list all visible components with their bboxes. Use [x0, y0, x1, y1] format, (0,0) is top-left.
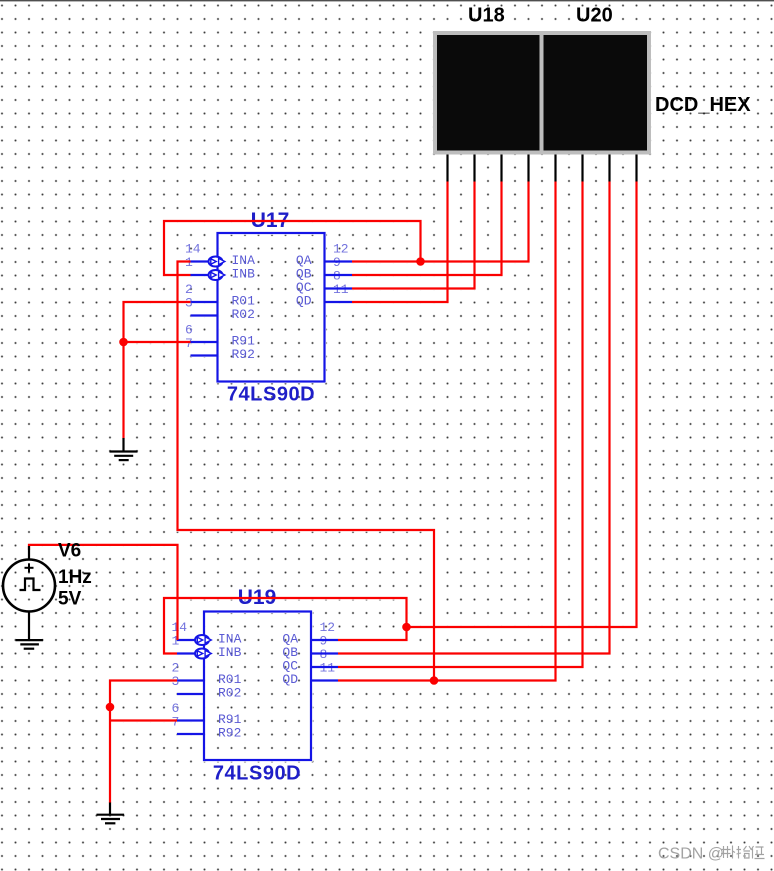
U19 pin number 12 — [320, 620, 336, 635]
V6 pulse waveform glyph — [20, 579, 41, 591]
U17 pin 1 INB stub — [191, 270, 225, 280]
U19 pin name R91 — [218, 712, 242, 727]
U17 pin 3 R02 stub — [191, 314, 218, 316]
wire U17 QA to U18 pin4 — [352, 182, 529, 262]
svg-text:7: 7 — [185, 336, 193, 351]
U19 pin name R01 — [218, 672, 242, 687]
U19 pin name QB — [282, 645, 298, 660]
svg-text:R02: R02 — [218, 686, 241, 701]
svg-text:CSDN @: CSDN @ — [658, 846, 724, 863]
U19 pin 9 QB stub — [311, 652, 338, 654]
U19 reference label — [238, 586, 277, 609]
U19 pin name R92 — [218, 726, 241, 741]
svg-text:QD: QD — [296, 294, 312, 309]
U19 pin number 8 — [320, 647, 328, 662]
U19 pin number 2 — [172, 661, 180, 676]
svg-text:7: 7 — [172, 715, 180, 730]
U19 pin name INA — [218, 632, 242, 647]
svg-text:74LS90D: 74LS90D — [213, 763, 301, 785]
U17 pin 11 QD stub — [325, 301, 353, 303]
V6 top lead — [28, 546, 30, 560]
U19 pin name QA — [282, 632, 298, 647]
svg-text:U20: U20 — [576, 5, 613, 27]
U19 pin name QD — [282, 672, 298, 687]
source V6 circle — [3, 560, 55, 612]
svg-text:R92: R92 — [232, 347, 255, 362]
U17 pin number 12 — [333, 242, 349, 257]
wire U19 QD to U17 INA — [178, 262, 435, 681]
svg-text:INB: INB — [218, 645, 242, 660]
U17 pin number 3 — [185, 296, 193, 311]
U17 pin number 1 — [185, 255, 193, 270]
display U18 pin 4 stub — [527, 155, 529, 182]
svg-text:QD: QD — [282, 672, 298, 687]
wire U17 QD to U18 pin1 — [352, 182, 448, 303]
U19 pin number 11 — [320, 661, 336, 676]
display U20 pin 2 stub — [581, 155, 583, 182]
junction node U19 QD cascade — [430, 676, 439, 685]
U17 pin name INB — [232, 267, 256, 282]
U19 pin 1 INB stub — [177, 649, 211, 659]
display U20 body — [544, 35, 648, 151]
V6 reference label — [58, 541, 81, 562]
U19 pin number 6 — [172, 701, 180, 716]
wire U17 R01 to ground net — [124, 302, 191, 439]
U17 pin number 11 — [333, 282, 349, 297]
U19 pin number 1 — [172, 634, 180, 649]
wire V6 to U19 INA — [29, 545, 178, 640]
svg-text:DCD_HEX: DCD_HEX — [655, 94, 751, 116]
U19 pin name R02 — [218, 686, 241, 701]
display U18 body — [437, 35, 540, 151]
U19 pin 14 INA stub — [177, 635, 211, 645]
U19 pin number 9 — [320, 634, 328, 649]
junction node U19 QA — [402, 623, 411, 632]
U19 pin 12 QA stub — [311, 639, 338, 641]
IC U19 74LS90D body — [204, 612, 311, 761]
watermark glyph 2 — [737, 846, 752, 859]
U19 pin number 14 — [172, 620, 188, 635]
U17 pin name R02 — [232, 307, 255, 322]
U17 pin name QB — [296, 267, 312, 282]
ground under U17 resets — [110, 438, 138, 460]
wire U19 QB to U20 pin3 — [338, 182, 610, 654]
svg-text:R92: R92 — [218, 726, 241, 741]
svg-text:U18: U18 — [468, 5, 505, 27]
display U18 pin 1 stub — [446, 155, 448, 182]
wire U19 QA branch to U20 pin4 — [407, 182, 637, 628]
wire casing underlay — [29, 155, 637, 815]
U19 pin number 7 — [172, 715, 180, 730]
junction node U17 QA — [416, 257, 425, 266]
wire U17 QB to U18 pin3 — [352, 182, 502, 276]
wire U17 R91 branch — [124, 341, 191, 343]
V6 value 5V — [58, 589, 82, 610]
svg-text:74LS90D: 74LS90D — [227, 384, 315, 406]
top frame line — [0, 0, 774, 1]
U17 pin 6 R91 stub — [191, 341, 218, 343]
U17 pin number 2 — [185, 282, 193, 297]
watermark glyph 3 — [751, 846, 765, 859]
U17 pin 9 QB stub — [325, 274, 353, 276]
display U20 label — [576, 5, 613, 27]
svg-text:INB: INB — [232, 267, 256, 282]
U17 pin number 7 — [185, 336, 193, 351]
svg-text:5V: 5V — [58, 589, 82, 610]
IC U17 74LS90D body — [218, 233, 325, 382]
wire U19 R91 branch — [110, 719, 177, 721]
wire U19 QC to U20 pin2 — [338, 182, 583, 668]
U17 pin 8 QC stub — [325, 287, 353, 289]
U17 part value 74LS90D — [227, 384, 315, 406]
U19 pin 3 R02 stub — [177, 693, 204, 695]
U19 pin name QC — [282, 659, 298, 674]
display U18 / U20 grey frame — [433, 31, 651, 155]
U19 pin 8 QC stub — [311, 666, 338, 668]
junction node U19 reset net — [106, 703, 115, 712]
display U20 pin 1 stub — [554, 155, 556, 182]
U17 pin name QD — [296, 294, 312, 309]
U17 pin number 9 — [333, 255, 341, 270]
U17 pin 12 QA stub — [325, 260, 353, 262]
svg-text:V6: V6 — [58, 541, 81, 562]
wire U17 QC to U18 pin2 — [352, 182, 475, 289]
watermark glyph 1 — [721, 846, 735, 859]
display U18 pin 3 stub — [500, 155, 502, 182]
svg-text:R02: R02 — [232, 307, 255, 322]
display U20 pin 4 stub — [635, 155, 637, 182]
U17 pin number 6 — [185, 323, 193, 338]
U19 pin 2 R01 stub — [177, 679, 204, 681]
display U20 pin 3 stub — [608, 155, 610, 182]
U17 pin name INA — [232, 253, 256, 268]
U17 pin name R91 — [232, 334, 256, 349]
watermark CSDN — [658, 846, 724, 863]
U17 pin name QC — [296, 280, 312, 295]
display U18 label — [468, 5, 505, 27]
V6 ground — [16, 640, 43, 649]
U17 pin 14 INA stub — [191, 257, 225, 267]
U17 pin name R01 — [232, 294, 256, 309]
V6 plus sign — [25, 563, 34, 572]
U19 pin name INB — [218, 645, 242, 660]
U17 pin number 8 — [333, 269, 341, 284]
V6 bottom lead — [28, 612, 30, 640]
U19 pin 11 QD stub — [311, 679, 338, 681]
wire U17 QA loop to U17 INB — [164, 221, 421, 275]
DCD_HEX label — [655, 94, 751, 116]
U19 part value 74LS90D — [213, 763, 301, 785]
display U18 pin 2 stub — [473, 155, 475, 182]
wire U19 R01 to ground net — [110, 681, 177, 804]
U17 pin number 14 — [185, 242, 201, 257]
U17 pin name R92 — [232, 347, 255, 362]
U17 reference label — [251, 209, 290, 232]
wire U19 QD to U20 pin1 — [338, 182, 556, 681]
V6 value 1Hz — [58, 567, 92, 588]
svg-text:1Hz: 1Hz — [58, 567, 92, 588]
U19 pin 7 R92 stub — [177, 733, 204, 735]
U17 pin name QA — [296, 253, 312, 268]
ground under U19 resets — [97, 803, 125, 824]
wire U19 QA loop to U19 INB — [164, 598, 407, 654]
U17 pin 7 R92 stub — [191, 354, 218, 356]
junction node U17 reset net — [119, 338, 128, 347]
U19 pin number 3 — [172, 674, 180, 689]
U19 pin 6 R91 stub — [177, 719, 204, 721]
U17 pin 2 R01 stub — [191, 301, 218, 303]
